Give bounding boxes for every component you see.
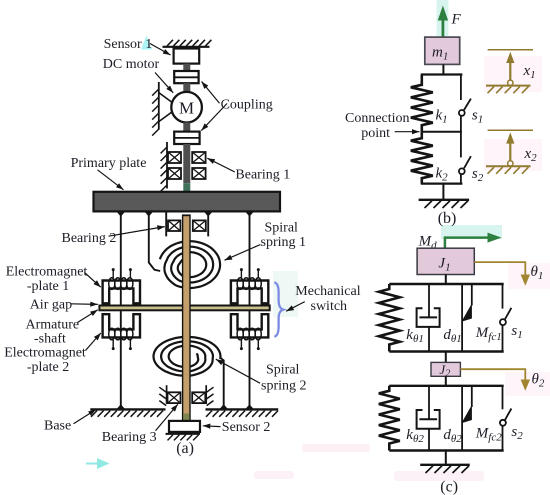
leader arrow spiral spring 1 [225,245,261,261]
right column leg [249,211,251,409]
main vertical shaft (tan) [182,215,191,421]
bearing 3 left support [159,385,166,405]
artifact cyan band above Md arrow [441,225,502,239]
sensor 2 box [169,421,200,432]
leader arrow base [74,410,96,424]
svg-text:-plate 2: -plate 2 [27,360,69,375]
third bus bar (c) [389,385,503,387]
base ground right segment [206,409,279,416]
primary plate [94,192,281,212]
artifact cyan tint right of brace [273,271,298,317]
leader arrow armature shaft [78,310,98,323]
electromagnet plate 2 right core [231,314,268,350]
artifact pink tint x1 [484,56,542,92]
ceiling fixed support [163,40,212,47]
electromagnet plate 2 left core [103,314,140,350]
electromagnet plate 1 left core [103,268,140,303]
spiral spring 2 anchor post [220,358,224,410]
svg-text:Spiral: Spiral [265,221,299,236]
spring k2 [411,132,433,184]
leader arrow mechanical switch [286,302,305,312]
svg-text:Bearing 2: Bearing 2 [62,231,117,246]
bottom bar (b) [421,183,463,185]
svg-text:Armature: Armature [26,317,80,332]
svg-text:Spiral: Spiral [266,362,300,377]
displacement indicator x2 [486,130,533,174]
svg-text:F: F [451,12,462,28]
leader arrow electromagnet plate 1 [85,273,101,288]
mass m1 [425,37,460,64]
bearing 3 right support [206,385,213,405]
bearing 2 rolling elements [168,220,206,231]
wire J2 to bus3 [445,376,447,386]
inertia J1 [417,248,474,274]
sensor 1 box [174,49,200,64]
spring k1 [411,75,433,132]
friction M_fc1 [461,284,472,352]
wire bus to J2 [445,352,447,363]
leg fillets at plate [116,211,254,216]
leader arrow spiral spring 2 [216,359,260,383]
svg-text:Connection: Connection [345,111,410,126]
coupling C2 lower [174,132,199,144]
shaft segment below motor [183,122,190,131]
artifact pink ghost text marks [302,444,370,452]
switch s1 branch [459,75,471,132]
leader arrow air gap [71,302,98,307]
inertia J2 [431,362,460,380]
spring k_theta2 [379,386,400,451]
svg-text:Electromagnet: Electromagnet [6,265,88,280]
ground (b) [419,200,470,208]
theta1 takeoff arrow [474,262,530,286]
bottom bus bar (c) [389,449,503,452]
leader arrow bearing 2 [109,225,165,236]
shaft segment through bearing 1 [183,144,190,183]
green shaft tip at plate [183,183,190,192]
svg-text:Mechanical: Mechanical [295,284,360,299]
artifact pink tint theta1 [508,263,550,289]
artifact cyan triangle [141,36,152,50]
leader arrow connection point [395,129,420,134]
torque arrow Md [445,233,502,249]
artifact cyan arrow bottom-left [86,460,107,468]
artifact pink tint x2 [484,139,542,171]
svg-text:Primary plate: Primary plate [71,156,147,171]
middle bus bar (c) [389,350,503,353]
spring k_theta1 [379,284,400,352]
svg-text:DC motor: DC motor [103,57,160,72]
spiral spring 2 [154,337,221,376]
shaft segment above motor [183,83,190,92]
svg-text:Sensor 2: Sensor 2 [222,420,271,435]
svg-text:Base: Base [44,419,71,434]
electromagnet plate 1 right core [231,268,268,303]
leader arrow bearing 1 [207,158,235,172]
force arrow F [438,6,448,37]
wire m1 to frame [442,64,444,74]
artifact pink tint theta2 [505,372,550,396]
svg-text:Bearing 1: Bearing 1 [235,168,290,183]
DC motor circle M [171,92,202,123]
svg-text:switch: switch [311,299,348,314]
coupling C1 upper [174,71,198,83]
svg-text:(a): (a) [176,440,194,457]
armature bar [99,306,269,311]
frame top bar (b) [421,73,463,75]
ground stem (c) [445,451,447,465]
bearing 3 rolling elements [168,392,206,403]
svg-text:Electromagnet: Electromagnet [4,346,86,361]
artifact cyan band behind F arrow [437,0,449,36]
svg-text:Air gap: Air gap [30,297,72,312]
svg-text:(c): (c) [440,479,458,495]
shaft segment above coupling 1 [183,64,190,72]
leader arrow DC motor [155,73,173,93]
spiral spring 1 [160,241,220,288]
top bus bar (c) [389,283,503,285]
sensor 2 ground [166,434,201,441]
leader arrow sensor 2 [203,424,221,429]
svg-text:(b): (b) [438,210,457,227]
leader arrows coupling [201,82,227,131]
svg-text:Sensor 1: Sensor 1 [104,37,153,52]
ground stem (b) [442,184,444,200]
leader arrow primary plate [98,170,124,190]
svg-text:-shaft: -shaft [34,332,66,347]
ground (c) [420,465,470,473]
svg-text:Coupling: Coupling [221,98,273,113]
base ground left segment [90,409,165,416]
bearing 1 wall (fixed support) [161,142,167,191]
svg-text:-plate 1: -plate 1 [27,279,69,294]
svg-text:Bearing 3: Bearing 3 [102,430,157,445]
wire J1 to bus [445,275,447,285]
left column leg [120,211,122,409]
svg-text:spring 2: spring 2 [261,379,307,394]
leader arrow bearing 3 [156,404,178,431]
motor wall (fixed support) [152,82,159,136]
svg-text:M: M [179,98,194,117]
bearing 2 housing [166,211,208,236]
mechanical switch brace [274,282,283,337]
displacement indicator x1 [486,50,533,93]
leg feet at base [116,404,254,409]
motor mount bracket [159,93,173,122]
spiral spring 1 anchor post [149,211,160,271]
friction M_fc2 [461,386,472,451]
connection point bar [421,131,462,133]
leader arrow sensor 1 [150,44,171,56]
svg-text:spring 1: spring 1 [261,235,307,250]
leader arrow electromagnet plate 2 [86,333,101,351]
svg-text:point: point [361,126,390,141]
switch s1 (c) [500,284,512,352]
damper d_theta2 [417,386,440,451]
switch s2 (c) [500,386,512,451]
switch s2 branch [459,132,471,184]
damper d_theta1 [417,284,440,352]
theta2 takeoff arrow [460,369,530,391]
bearing 1 rolling elements [168,152,206,179]
